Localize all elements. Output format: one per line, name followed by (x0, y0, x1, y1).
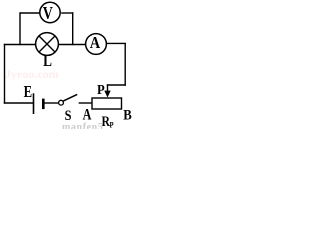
wire: battery to switch (45, 102, 59, 104)
svg-text:A: A (83, 106, 92, 124)
ammeter A circle (86, 34, 107, 55)
rheostat RP body (92, 98, 122, 109)
svg-text:B: B (123, 108, 132, 124)
wire: top-right horizontal from voltmeter (61, 12, 73, 14)
switch S pivot circle (59, 100, 64, 105)
wire: top-left horizontal to voltmeter (20, 12, 40, 14)
wire: lamp row left segment (4, 44, 36, 46)
wire: switch to rheostat terminal A (79, 102, 93, 104)
wire: wiper arrow shaft (107, 84, 109, 92)
wiper arrowhead P (104, 91, 110, 98)
wire: bottom-left horizontal to battery (4, 102, 33, 104)
wire: bottom-right horizontal to wiper (107, 84, 126, 86)
wire: ammeter right segment (106, 42, 126, 44)
svg-text:S: S (65, 107, 72, 123)
wire: left outer vertical (4, 44, 6, 104)
wire: right outer vertical (124, 43, 126, 86)
wire: right inner vertical (voltmeter branch) (72, 12, 74, 45)
battery E short plate (42, 99, 45, 110)
lamp L cross (39, 36, 55, 52)
wire: left inner vertical (voltmeter branch) (19, 12, 21, 45)
battery E long plate (33, 93, 35, 114)
wire: lamp to ammeter segment (junction with voltmeter branch) (58, 44, 86, 46)
svg-text:A: A (90, 34, 101, 52)
switch S blade (63, 94, 77, 101)
svg-text:V: V (43, 5, 54, 24)
voltmeter U: V circle (40, 2, 60, 22)
svg-text:L: L (43, 51, 52, 70)
lamp L circle (36, 33, 59, 56)
svg-text:E: E (24, 83, 32, 101)
svg-text:P: P (97, 81, 105, 97)
